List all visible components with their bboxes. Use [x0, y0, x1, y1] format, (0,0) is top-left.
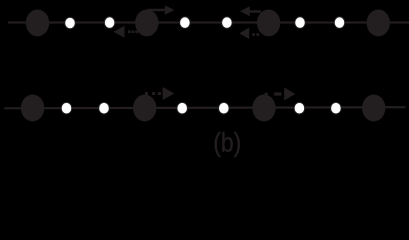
row 1 small atom s6	[334, 17, 345, 29]
row 1 dotted left arrow (below line, left of A2)	[114, 26, 138, 38]
row 1 small atom s5	[295, 17, 306, 29]
row 1 big atom A4	[367, 9, 390, 36]
row 1 big atom A3	[257, 9, 280, 36]
row 2 small atom t4	[219, 102, 230, 114]
row 2 dashed right arrow (above B3)	[265, 88, 296, 101]
row 1 solid left arrow (above A3)	[240, 6, 261, 16]
row 2 dotted right arrow (above B2)	[145, 87, 175, 100]
row 2 small atom t6	[331, 102, 342, 114]
row 1 small atom s4	[222, 17, 233, 29]
row 2 big atom B3	[252, 95, 275, 122]
row 2 big atom B4	[362, 95, 385, 122]
row 2 lattice line	[4, 107, 405, 108]
row 2 small atom t3	[177, 102, 188, 114]
row 1 big atom A1	[26, 9, 49, 36]
row 1 small atom s1	[65, 17, 76, 29]
row 2 big atom B2	[133, 95, 156, 122]
row 2 small atom t5	[294, 102, 305, 114]
row 1 lattice line	[8, 21, 409, 23]
row 2 small atom t1	[61, 102, 72, 114]
row 1 small atom s3	[180, 17, 191, 29]
row 2 small atom t2	[99, 102, 110, 114]
row 1 small atom s2	[104, 17, 115, 29]
row 1 dotted left arrow (below line, left of A3)	[239, 28, 259, 40]
row 2 big atom B1	[21, 95, 44, 122]
row 1 solid right arrow (above A2)	[148, 5, 175, 14]
row 1 big atom A2	[135, 9, 158, 36]
svg-text:(b): (b)	[213, 128, 241, 158]
